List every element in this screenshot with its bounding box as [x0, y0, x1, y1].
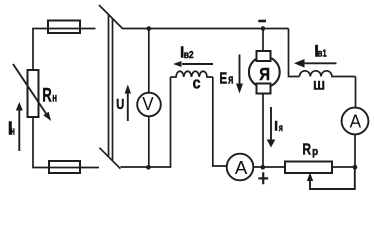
- arrow Iya: [267, 107, 276, 148]
- fuse F1 top: [48, 21, 80, 34]
- inductor c (shunt winding 2): [171, 71, 213, 77]
- wire voltmeter drop: [148, 29, 150, 94]
- svg-text:A: A: [350, 112, 362, 132]
- wire Rp right terminal: [332, 166, 355, 168]
- junction node on top wire at armature (minus): [261, 26, 266, 31]
- svg-text:в2: в2: [184, 50, 194, 61]
- wire top bus: [123, 28, 289, 30]
- wire A1 to Rp: [253, 166, 285, 168]
- wire winding to ammeter A2: [355, 77, 357, 109]
- svg-text:н: н: [11, 125, 15, 137]
- armature circle Ya: [249, 57, 280, 88]
- fuse F2 bottom: [49, 161, 80, 173]
- svg-text:я: я: [228, 73, 233, 87]
- brush top: [257, 51, 271, 61]
- svg-text:V: V: [142, 93, 154, 114]
- ammeter A2 circle: [342, 108, 369, 135]
- rheostat Rp wiper arrow and loop: [307, 167, 355, 189]
- rheostat Rp box: [285, 162, 332, 174]
- break bar 2: [112, 19, 114, 162]
- break bar 1: [108, 15, 110, 158]
- wire top right corner down to winding Sh: [289, 29, 300, 77]
- arrow Eya: [236, 55, 243, 94]
- svg-text:н: н: [52, 93, 57, 105]
- wire A2 down to bottom node: [354, 134, 356, 167]
- voltmeter V circle: [137, 93, 161, 117]
- svg-text:A: A: [235, 157, 248, 178]
- minus sign label: [258, 20, 266, 23]
- wire voltmeter to bottom: [148, 116, 150, 167]
- svg-text:I: I: [274, 118, 278, 134]
- svg-text:U: U: [116, 96, 124, 113]
- wire left loop (top, left side, bottom): [33, 29, 99, 168]
- svg-text:R: R: [302, 142, 311, 159]
- rheostat Rn box: [28, 70, 39, 117]
- line break diagonal bottom: [99, 148, 120, 169]
- winding Sh (series winding): [300, 71, 356, 77]
- svg-text:я: я: [279, 123, 283, 134]
- arrow In: [16, 102, 23, 151]
- junction node bottom right at Rp: [353, 165, 358, 170]
- wire bottom left + shunt loop left side: [121, 77, 171, 167]
- plus sign label: [258, 172, 268, 184]
- svg-text:E: E: [219, 71, 227, 88]
- ammeter A1 circle: [227, 154, 254, 181]
- brush bottom: [257, 84, 271, 94]
- svg-text:Я: Я: [259, 64, 270, 84]
- arrow Iv2: [173, 61, 213, 67]
- svg-text:с: с: [193, 73, 201, 92]
- svg-text:в1: в1: [318, 49, 327, 60]
- svg-text:р: р: [312, 146, 318, 158]
- arrow Iv1: [294, 59, 337, 68]
- rheostat Rn diagonal arrow: [13, 64, 51, 121]
- arrow U: [125, 85, 131, 122]
- svg-text:Ш: Ш: [313, 79, 325, 93]
- line break diagonal top: [99, 5, 123, 29]
- wire shunt loop right side to ammeter A1: [213, 77, 227, 166]
- junction node bottom at armature (plus): [261, 165, 266, 170]
- junction node bottom at V branch: [146, 165, 151, 170]
- junction node on top wire at V branch: [147, 26, 152, 31]
- wire armature column: [262, 29, 264, 168]
- svg-text:R: R: [42, 85, 52, 106]
